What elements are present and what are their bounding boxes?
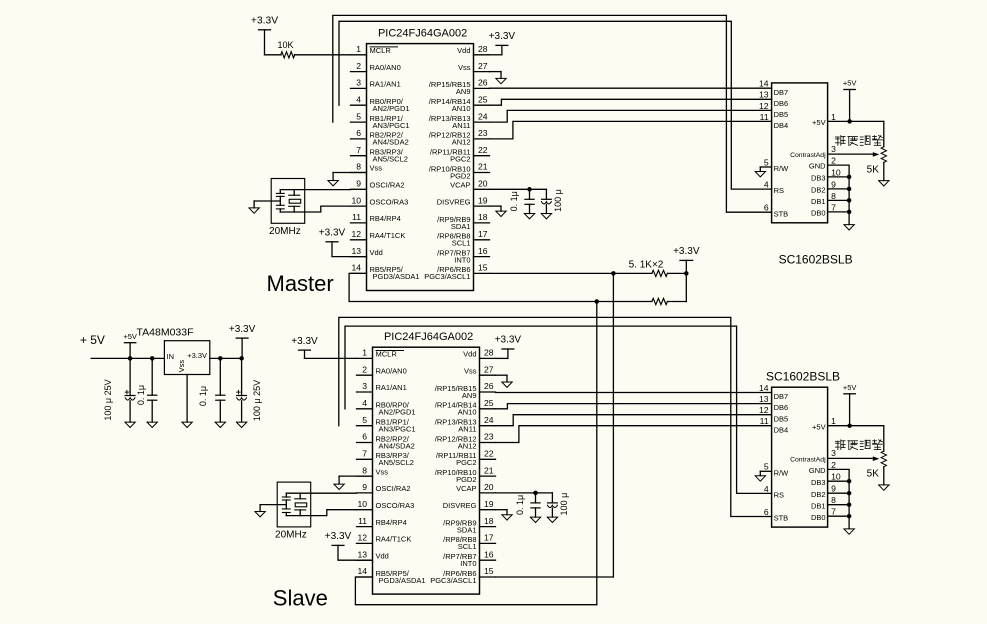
svg-text:1: 1 [831, 112, 836, 122]
svg-text:25: 25 [484, 398, 494, 408]
svg-text:24: 24 [478, 111, 488, 121]
svg-text:+5V: +5V [843, 383, 857, 392]
svg-text:4: 4 [764, 484, 769, 494]
svg-text:20MHz: 20MHz [275, 530, 307, 541]
svg-text:PGC2: PGC2 [450, 155, 470, 164]
svg-text:AN2/PGD1: AN2/PGD1 [379, 408, 416, 417]
svg-text:DB3: DB3 [811, 174, 826, 183]
svg-text:2: 2 [356, 61, 361, 71]
svg-text:AN12: AN12 [458, 441, 477, 450]
svg-text:+5V: +5V [812, 118, 826, 127]
svg-text:20: 20 [478, 179, 488, 189]
svg-text:RA4/T1CK: RA4/T1CK [376, 535, 412, 544]
svg-text:+5V: +5V [843, 79, 857, 88]
svg-text:22: 22 [484, 449, 494, 459]
svg-text:3: 3 [831, 448, 836, 458]
svg-text:Vss: Vss [177, 360, 186, 373]
svg-text:19: 19 [484, 499, 494, 509]
svg-text:28: 28 [478, 44, 488, 54]
svg-text:0. 1μ: 0. 1μ [136, 385, 146, 405]
svg-text:AN5/SCL2: AN5/SCL2 [379, 458, 414, 467]
svg-text:5: 5 [764, 157, 769, 167]
svg-text:Vdd: Vdd [457, 46, 470, 55]
svg-text:23: 23 [484, 432, 494, 442]
svg-text:11: 11 [358, 516, 367, 526]
svg-text:18: 18 [478, 212, 488, 222]
svg-text:10: 10 [351, 195, 361, 205]
svg-text:DB5: DB5 [774, 414, 789, 423]
svg-text:SCL1: SCL1 [458, 542, 477, 551]
svg-text:PGC3/ASCL1: PGC3/ASCL1 [430, 576, 476, 585]
svg-text:23: 23 [478, 128, 488, 138]
svg-text:ContrastAdj: ContrastAdj [790, 456, 826, 463]
svg-text:19: 19 [478, 195, 488, 205]
svg-text:DB7: DB7 [774, 88, 789, 97]
svg-text:9: 9 [831, 484, 836, 494]
svg-text:GND: GND [809, 162, 826, 171]
svg-text:0. 1μ: 0. 1μ [198, 386, 208, 406]
svg-text:DB6: DB6 [774, 99, 789, 108]
svg-text:DISVREG: DISVREG [437, 197, 471, 206]
svg-text:10K: 10K [277, 40, 293, 50]
svg-text:IN: IN [167, 352, 175, 361]
svg-text:+3.3V: +3.3V [251, 16, 278, 27]
svg-text:+3.3V: +3.3V [495, 335, 522, 346]
svg-text:+5V: +5V [812, 422, 826, 431]
svg-text:AN11: AN11 [458, 425, 476, 434]
svg-text:3: 3 [362, 381, 367, 391]
svg-text:6: 6 [362, 432, 367, 442]
svg-text:SDA1: SDA1 [457, 525, 477, 534]
svg-text:100 μ 25V: 100 μ 25V [103, 379, 113, 420]
svg-text:SC1602BSLB: SC1602BSLB [779, 253, 853, 267]
svg-text:10: 10 [831, 472, 841, 482]
svg-text:STB: STB [774, 209, 789, 218]
svg-text:Master: Master [267, 271, 334, 296]
svg-text:21: 21 [484, 465, 494, 475]
svg-text:SDA1: SDA1 [451, 222, 471, 231]
svg-text:AN5/SCL2: AN5/SCL2 [373, 155, 408, 164]
svg-text:14: 14 [351, 263, 361, 273]
svg-text:GND: GND [809, 466, 826, 475]
svg-text:VCAP: VCAP [456, 484, 476, 493]
svg-text:7: 7 [356, 145, 361, 155]
svg-text:TA48M033F: TA48M033F [137, 326, 194, 338]
svg-text:AN10: AN10 [452, 104, 471, 113]
svg-text:OSCI/RA2: OSCI/RA2 [376, 484, 411, 493]
svg-text:100 μ: 100 μ [559, 493, 569, 516]
svg-text:Vss: Vss [458, 63, 471, 72]
svg-text:25: 25 [478, 94, 488, 104]
svg-text:PGC2: PGC2 [456, 458, 476, 467]
svg-text:PGD3/ASDA1: PGD3/ASDA1 [379, 576, 426, 585]
svg-text:12: 12 [759, 405, 769, 415]
svg-text:DB3: DB3 [811, 478, 826, 487]
svg-text:SC1602BSLB: SC1602BSLB [766, 370, 840, 384]
svg-text:8: 8 [356, 162, 361, 172]
svg-text:DB2: DB2 [811, 490, 826, 499]
svg-text:13: 13 [759, 394, 769, 404]
svg-text:20MHz: 20MHz [269, 226, 301, 237]
svg-text:AN9: AN9 [462, 391, 477, 400]
svg-text:100 μ 25V: 100 μ 25V [252, 380, 262, 421]
svg-text:Vdd: Vdd [463, 350, 476, 359]
svg-text:9: 9 [356, 179, 361, 189]
svg-text:12: 12 [759, 101, 769, 111]
svg-text:2: 2 [362, 364, 367, 374]
svg-text:5: 5 [356, 111, 361, 121]
svg-text:RA0/AN0: RA0/AN0 [376, 366, 407, 375]
svg-text:DISVREG: DISVREG [443, 501, 477, 510]
svg-text:DB2: DB2 [811, 186, 826, 195]
svg-text:+3.3V: +3.3V [291, 336, 318, 347]
svg-text:+3.3V: +3.3V [325, 531, 352, 542]
svg-text:DB0: DB0 [811, 513, 826, 522]
svg-text:2: 2 [831, 460, 836, 470]
svg-text:RA1/AN1: RA1/AN1 [376, 383, 407, 392]
svg-text:26: 26 [484, 381, 494, 391]
svg-text:Vss: Vss [370, 164, 383, 173]
svg-text:4: 4 [356, 94, 361, 104]
svg-text:STB: STB [774, 514, 789, 523]
svg-text:0. 1μ: 0. 1μ [509, 191, 519, 211]
svg-text:DB1: DB1 [811, 501, 826, 510]
svg-text:27: 27 [478, 61, 488, 71]
svg-text:6: 6 [356, 128, 361, 138]
svg-text:VCAP: VCAP [450, 181, 470, 190]
svg-text:AN10: AN10 [458, 408, 477, 417]
svg-text:+3.3V: +3.3V [319, 228, 346, 239]
svg-text:7: 7 [362, 449, 367, 459]
svg-text:5K: 5K [867, 469, 880, 480]
svg-text:6: 6 [764, 507, 769, 517]
svg-text:3: 3 [831, 144, 836, 154]
svg-text:RS: RS [774, 186, 784, 195]
svg-text:16: 16 [478, 246, 488, 256]
svg-text:+5V: +5V [123, 332, 137, 341]
svg-text:DB1: DB1 [811, 197, 826, 206]
svg-text:Vdd: Vdd [376, 551, 389, 560]
svg-text:8: 8 [362, 465, 367, 475]
svg-text:DB5: DB5 [774, 110, 789, 119]
svg-text:11: 11 [760, 112, 769, 122]
svg-text:RA1/AN1: RA1/AN1 [370, 80, 401, 89]
svg-text:AN2/PGD1: AN2/PGD1 [373, 104, 410, 113]
svg-text:Vdd: Vdd [370, 248, 383, 257]
svg-text:5: 5 [764, 462, 769, 472]
svg-text:4: 4 [764, 180, 769, 190]
svg-text:+ 5V: + 5V [80, 333, 105, 347]
svg-text:4: 4 [362, 398, 367, 408]
svg-text:+3.3V: +3.3V [229, 324, 256, 335]
svg-text:1: 1 [831, 416, 836, 426]
svg-text:13: 13 [759, 90, 769, 100]
svg-text:8: 8 [831, 495, 836, 505]
svg-text:9: 9 [362, 482, 367, 492]
svg-text:5: 5 [362, 415, 367, 425]
svg-text:28: 28 [484, 348, 494, 358]
svg-text:INT0: INT0 [460, 559, 476, 568]
svg-text:SCL1: SCL1 [452, 239, 471, 248]
svg-text:15: 15 [478, 263, 488, 273]
svg-text:+3.3V: +3.3V [187, 351, 207, 360]
svg-text:100 μ: 100 μ [553, 189, 563, 212]
svg-text:DB6: DB6 [774, 403, 789, 412]
svg-text:3: 3 [356, 78, 361, 88]
svg-text:27: 27 [484, 364, 494, 374]
svg-text:AN9: AN9 [456, 87, 471, 96]
svg-text:R/W: R/W [774, 164, 790, 173]
svg-text:AN3/PGC1: AN3/PGC1 [373, 121, 410, 130]
svg-text:17: 17 [484, 533, 494, 543]
svg-text:OSCI/RA2: OSCI/RA2 [370, 181, 405, 190]
svg-text:Slave: Slave [273, 586, 328, 611]
svg-text:13: 13 [351, 246, 361, 256]
svg-text:7: 7 [831, 202, 836, 212]
svg-text:11: 11 [760, 416, 769, 426]
svg-text:20: 20 [484, 482, 494, 492]
svg-text:7: 7 [831, 507, 836, 517]
svg-text:Vss: Vss [376, 467, 389, 476]
svg-text:10: 10 [357, 499, 367, 509]
svg-text:Vss: Vss [464, 366, 477, 375]
svg-text:14: 14 [759, 383, 769, 393]
svg-text:1: 1 [362, 348, 367, 358]
svg-text:PGD2: PGD2 [450, 171, 470, 180]
svg-text:PIC24FJ64GA002: PIC24FJ64GA002 [384, 331, 473, 343]
svg-text:5. 1K×2: 5. 1K×2 [629, 259, 664, 270]
svg-text:18: 18 [484, 516, 494, 526]
svg-text:DB7: DB7 [774, 392, 789, 401]
svg-text:INT0: INT0 [454, 255, 470, 264]
svg-text:2: 2 [831, 156, 836, 166]
svg-text:RA0/AN0: RA0/AN0 [370, 63, 401, 72]
svg-text:+3.3V: +3.3V [673, 246, 700, 257]
svg-text:12: 12 [351, 229, 361, 239]
svg-text:AN12: AN12 [452, 138, 471, 147]
svg-text:RB4/RP4: RB4/RP4 [370, 214, 401, 223]
svg-text:+3.3V: +3.3V [489, 31, 516, 42]
svg-text:PIC24FJ64GA002: PIC24FJ64GA002 [378, 27, 467, 39]
svg-text:1: 1 [356, 44, 361, 54]
svg-text:24: 24 [484, 415, 494, 425]
svg-text:PGC3/ASCL1: PGC3/ASCL1 [424, 272, 470, 281]
svg-text:AN3/PGC1: AN3/PGC1 [379, 425, 416, 434]
svg-text:10: 10 [831, 167, 841, 177]
svg-text:AN4/SDA2: AN4/SDA2 [379, 441, 415, 450]
svg-text:5K: 5K [867, 164, 880, 175]
svg-text:9: 9 [831, 179, 836, 189]
svg-text:RA4/T1CK: RA4/T1CK [370, 231, 406, 240]
svg-text:6: 6 [764, 203, 769, 213]
svg-text:17: 17 [478, 229, 488, 239]
svg-text:11: 11 [352, 212, 361, 222]
svg-text:DB4: DB4 [774, 121, 789, 130]
svg-text:12: 12 [357, 533, 367, 543]
svg-text:OSCO/RA3: OSCO/RA3 [376, 501, 415, 510]
svg-text:PGD3/ASDA1: PGD3/ASDA1 [373, 272, 420, 281]
svg-text:RB4/RP4: RB4/RP4 [376, 518, 407, 527]
svg-text:AN11: AN11 [452, 121, 470, 130]
svg-text:RS: RS [774, 491, 784, 500]
svg-text:R/W: R/W [774, 468, 790, 477]
svg-text:22: 22 [478, 145, 488, 155]
svg-text:DB4: DB4 [774, 425, 789, 434]
svg-text:15: 15 [484, 566, 494, 576]
svg-text:AN4/SDA2: AN4/SDA2 [373, 138, 409, 147]
svg-text:OSCO/RA3: OSCO/RA3 [370, 197, 409, 206]
svg-text:14: 14 [759, 79, 769, 89]
svg-text:PGD2: PGD2 [456, 475, 476, 484]
svg-text:26: 26 [478, 78, 488, 88]
svg-text:14: 14 [357, 566, 367, 576]
svg-text:21: 21 [478, 162, 488, 172]
svg-text:16: 16 [484, 549, 494, 559]
svg-text:0. 1μ: 0. 1μ [515, 495, 525, 515]
svg-text:DB0: DB0 [811, 209, 826, 218]
svg-text:ContrastAdj: ContrastAdj [790, 152, 826, 159]
svg-text:8: 8 [831, 191, 836, 201]
svg-text:13: 13 [357, 549, 367, 559]
